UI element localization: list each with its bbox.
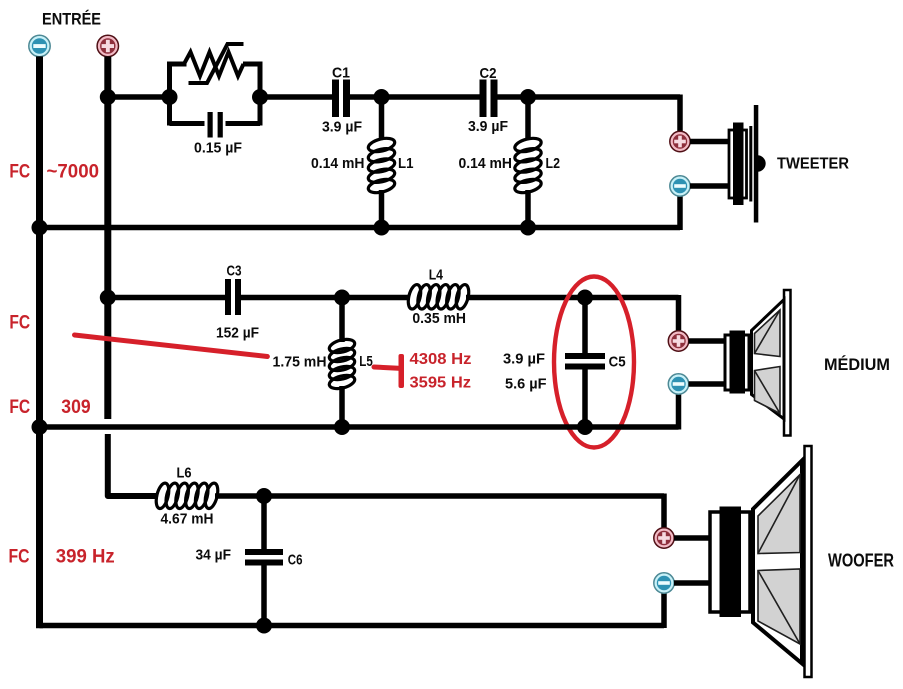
svg-text:152 µF: 152 µF [216,325,259,342]
svg-text:3.9 µF: 3.9 µF [322,119,362,136]
label TWEETER [777,156,849,173]
svg-text:FC: FC [9,312,30,333]
svg-text:L2: L2 [546,155,561,172]
red annotation line [75,335,268,357]
inductor L6 [154,482,220,510]
label L2 [546,155,561,172]
svg-text:0.35 mH: 0.35 mH [412,310,466,327]
node medium mid [334,290,350,306]
woofer speaker icon [710,446,812,677]
red highlight ellipse around C5 [554,277,634,448]
wire tweeter minus lead [690,183,729,189]
svg-text:4308 Hz: 4308 Hz [410,351,472,368]
wire woofer minus lead [674,580,711,586]
wire medium plus lead [689,338,727,344]
wire tweeter feed: plus bus to RC block [108,94,170,100]
medium terminal minus [668,374,688,394]
node after C2 [520,89,536,105]
wire C3 to L4 [241,295,410,301]
label L4 value [412,310,466,327]
label FC tweeter value [47,162,100,183]
label 4308 Hz [410,351,472,368]
node rail under L2 [520,220,536,236]
svg-text:3.9 µF: 3.9 µF [468,118,508,135]
svg-text:WOOFER: WOOFER [828,550,894,571]
wire tweeter return rail [40,196,681,230]
svg-text:ENTRÉE: ENTRÉE [42,10,101,29]
node medium rail under L5 [334,419,350,435]
inductor L5 [328,298,356,428]
svg-text:1.75 mH: 1.75 mH [273,354,327,371]
svg-text:TWEETER: TWEETER [777,156,849,173]
medium speaker icon [725,290,791,436]
label L1 [398,155,414,172]
wire L4 to medium speaker [466,295,679,331]
label L5 value [273,354,327,371]
capacitor C5 [565,298,605,428]
svg-text:309: 309 [61,397,90,418]
svg-text:FC: FC [9,547,30,568]
red pointer line [374,367,399,368]
label C5 value 2 [505,375,547,392]
node rail under L1 [374,220,390,236]
label C6 value [196,547,232,564]
svg-text:0.14 mH: 0.14 mH [459,155,513,172]
label MÉDIUM [824,355,890,374]
woofer terminal minus [654,573,674,593]
input terminal plus [97,35,118,56]
label C3 value [216,325,259,342]
svg-text:3595 Hz: 3595 Hz [410,375,472,392]
node C5 top [577,290,593,306]
wire block to C1 [260,94,333,100]
label C5 value 1 [503,350,545,367]
wire tweeter plus lead [690,139,729,145]
label L5 [359,353,373,370]
svg-text:~7000: ~7000 [47,162,100,183]
svg-text:C1: C1 [332,65,350,82]
node plus bus medium tap [100,290,116,306]
svg-text:L5: L5 [359,353,373,370]
label L2 value [459,155,513,172]
svg-text:C5: C5 [609,353,626,370]
medium terminal plus [668,331,688,351]
wire medium minus lead [689,381,727,387]
svg-text:4.67 mH: 4.67 mH [161,511,214,528]
wire C2 to tweeter [498,95,681,132]
label C2 value [468,118,508,135]
svg-text:L6: L6 [177,465,192,482]
svg-text:C6: C6 [288,552,303,569]
parallel RC block frame [170,64,261,126]
label 309 [61,397,90,418]
capacitor C3 plates [225,279,241,315]
label C2 [480,65,497,82]
label L6 value [161,511,214,528]
label 3595 Hz [410,375,472,392]
svg-text:399 Hz: 399 Hz [56,547,115,568]
woofer terminal plus [654,528,674,548]
label FC tweeter [9,162,30,183]
label C1 value [322,119,362,136]
label FC woofer [9,547,30,568]
svg-text:34 µF: 34 µF [196,547,232,564]
svg-text:C2: C2 [480,65,497,82]
label FC medium upper [9,312,30,333]
tweeter terminal minus [670,176,690,196]
label FC medium lower [9,397,30,418]
capacitor C6 [245,496,283,626]
svg-text:3.9 µF: 3.9 µF [503,350,545,367]
node after C1 [374,89,390,105]
label L1 value [311,155,365,172]
wire minus bus vertical [36,56,43,628]
wire L6 to woofer [215,494,664,529]
node rail minus bus [32,220,48,236]
svg-text:MÉDIUM: MÉDIUM [824,355,890,374]
label 0.15 µF [194,140,242,157]
resistor R zigzag (variable) [184,52,244,76]
label L6 [177,465,192,482]
svg-text:FC: FC [9,397,30,418]
capacitor C2 plates [480,80,498,118]
svg-text:L1: L1 [398,155,414,172]
red pointer bar [399,354,405,388]
label C1 [332,65,350,82]
tweeter speaker icon [729,105,766,223]
label L4 [429,266,444,283]
svg-text:0.15 µF: 0.15 µF [194,140,242,157]
node medium rail under C5 [577,419,593,435]
label C5 [609,353,626,370]
svg-text:L4: L4 [429,266,444,283]
node woofer rail under C6 [256,618,272,634]
node block left [162,89,178,105]
wire C1 to C2 [350,94,480,100]
svg-text:C3: C3 [227,262,242,279]
input terminal minus [29,35,50,56]
wire plus bus vertical lower with elbow to L6 [108,434,158,496]
label WOOFER [828,550,894,571]
node plus bus tweeter tap [100,89,116,105]
capacitor C1 plates [332,80,350,118]
node woofer tap [256,488,272,504]
inductor L2 [513,97,542,228]
label ENTRÉE [42,10,101,29]
wire medium return rail [40,394,679,430]
wire plus bus vertical upper [104,56,111,419]
label C6 [288,552,303,569]
inductor L4 [406,283,471,310]
capacitor 0.15 µF plates [208,112,223,138]
label FC woofer value [56,547,115,568]
svg-text:0.14 mH: 0.14 mH [311,155,365,172]
inductor L1 [367,97,396,228]
wire woofer plus lead [674,535,711,541]
svg-text:5.6 µF: 5.6 µF [505,375,547,392]
wire woofer return rail [40,593,665,628]
node medium rail minus bus [32,419,48,435]
svg-text:FC: FC [9,162,30,183]
node block right [252,89,268,105]
tweeter terminal plus [670,131,690,151]
label C3 [227,262,242,279]
wire medium feed: plus bus to C3 [108,295,226,301]
resistor adjustment arrow [189,44,244,83]
